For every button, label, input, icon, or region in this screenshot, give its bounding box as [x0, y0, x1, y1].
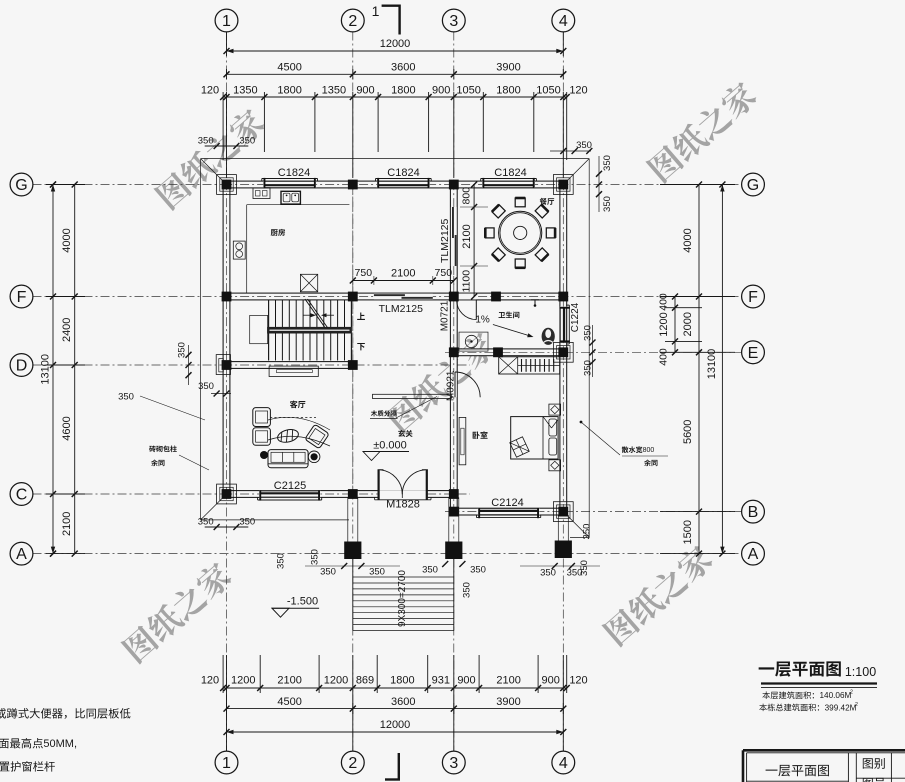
svg-text:B: B — [748, 504, 759, 521]
column C3 — [449, 489, 459, 499]
column G4 — [558, 180, 568, 190]
svg-text:1:100: 1:100 — [845, 665, 876, 679]
bed — [511, 417, 558, 459]
svg-text:800: 800 — [643, 447, 655, 454]
svg-text:120: 120 — [569, 84, 587, 96]
porch edge lines axis3 — [448, 497, 450, 541]
axis line A horizontal — [33, 553, 743, 555]
svg-text:13100: 13100 — [39, 354, 51, 385]
svg-text:3: 3 — [449, 13, 458, 30]
svg-text:3900: 3900 — [496, 61, 520, 73]
label 砖砌包柱 余同 — [149, 446, 156, 453]
svg-text:4: 4 — [559, 755, 568, 772]
svg-text:1350: 1350 — [233, 84, 257, 96]
svg-text:3600: 3600 — [391, 61, 415, 73]
axis bubble 3 — [442, 751, 465, 774]
column F mid — [491, 292, 501, 302]
svg-text:350: 350 — [579, 560, 590, 576]
watermark 图纸之家 2 — [645, 79, 760, 185]
svg-text:F: F — [748, 289, 758, 306]
dining chairs — [546, 228, 555, 238]
column D2 — [348, 360, 358, 370]
dim 350 pair top-left corner — [205, 145, 249, 147]
label 卫生间 — [499, 312, 506, 318]
axis bubble G — [10, 173, 33, 196]
axis bubble G — [742, 173, 765, 196]
svg-text:1: 1 — [222, 13, 231, 30]
dim chain 800 2100 1100 dining west — [473, 185, 475, 297]
axis bubble 1 — [215, 751, 238, 774]
column G3 — [449, 180, 459, 190]
svg-text:C: C — [16, 487, 28, 504]
svg-text:350: 350 — [118, 391, 134, 402]
svg-text:F: F — [17, 289, 27, 306]
label 卧室 — [473, 431, 480, 438]
svg-text:350: 350 — [275, 553, 286, 569]
sliding door TLM2125 hall north — [374, 294, 433, 300]
porch edge lines axis4 — [557, 515, 559, 541]
svg-text:1200: 1200 — [658, 312, 670, 336]
svg-text:4000: 4000 — [61, 228, 73, 252]
washbasin — [459, 332, 488, 351]
watermark 图纸之家 1 — [153, 106, 268, 212]
axis centerlines over walls — [226, 181, 228, 497]
bottom dimension chain total 12000 — [227, 731, 564, 733]
apron outline left — [200, 159, 202, 520]
column E mid — [493, 347, 503, 357]
svg-text:350: 350 — [309, 549, 320, 565]
svg-text:800: 800 — [461, 187, 473, 205]
column G2 — [348, 180, 358, 190]
column F1 — [222, 292, 232, 302]
staircase — [268, 300, 270, 327]
apron corner diagonal bottom-left — [201, 497, 224, 520]
axis bubble 3 — [442, 9, 465, 32]
title block frame — [743, 749, 905, 752]
svg-text:2100: 2100 — [461, 224, 473, 248]
svg-text:M0721: M0721 — [440, 300, 451, 331]
wall C south-west — [223, 491, 457, 498]
bottom fine dimension chain — [223, 687, 567, 689]
axis line C horizontal — [33, 493, 471, 495]
area text line2 — [759, 704, 767, 712]
axis bubble B — [742, 500, 765, 523]
title block text 一层平面图 — [766, 770, 778, 771]
svg-text:50MM,: 50MM, — [43, 738, 77, 750]
apron corner diagonal top-right — [567, 159, 590, 182]
svg-text:350: 350 — [576, 140, 592, 151]
note line 3 — [0, 762, 9, 772]
column C1 — [222, 489, 232, 499]
dim chain 750 2100 750 hall north — [353, 280, 454, 282]
sliding door TLM2125 dining west — [451, 207, 457, 266]
window C1824 a — [263, 181, 316, 188]
svg-text:900: 900 — [432, 84, 450, 96]
title block dividers — [847, 753, 849, 782]
title underline — [761, 682, 877, 684]
sofa side table round — [308, 451, 320, 463]
door M0921 bedroom — [451, 372, 457, 397]
porch pillar axis4 — [555, 541, 572, 559]
kitchen flue — [300, 274, 317, 292]
svg-text:3: 3 — [449, 755, 458, 772]
svg-text:1500: 1500 — [682, 520, 694, 544]
svg-text:120: 120 — [201, 674, 219, 686]
kitchen sink — [281, 191, 300, 204]
svg-text:M1828: M1828 — [386, 498, 420, 510]
window C2125 — [259, 491, 320, 498]
wardrobe — [499, 357, 560, 374]
door M0721 bathroom — [457, 294, 476, 300]
svg-text:1200: 1200 — [231, 674, 255, 686]
svg-text:D: D — [16, 358, 28, 375]
svg-text:1050: 1050 — [536, 84, 560, 96]
column B3 — [449, 507, 459, 517]
svg-text:399.42M: 399.42M — [825, 703, 857, 712]
apron outline bottom-left — [201, 519, 349, 521]
svg-text:1: 1 — [372, 3, 380, 19]
section mark 1 bottom — [398, 753, 400, 780]
svg-text:400: 400 — [658, 293, 670, 311]
sofa armchair 1 — [253, 408, 271, 427]
svg-text:350: 350 — [239, 516, 255, 527]
svg-text:13100: 13100 — [706, 349, 718, 380]
svg-text:1050: 1050 — [456, 84, 480, 96]
column F2 — [348, 292, 358, 302]
svg-text:5600: 5600 — [682, 420, 694, 444]
axis line D horizontal — [33, 364, 471, 366]
axis bubble 2 — [341, 9, 364, 32]
dining table — [499, 211, 542, 254]
svg-text:M0921: M0921 — [445, 370, 456, 401]
top fine dimension chain — [223, 96, 567, 98]
wooden partition 木质分隔 — [373, 394, 452, 398]
staircase break line — [305, 299, 325, 328]
svg-text:900: 900 — [457, 674, 475, 686]
svg-text:E: E — [748, 345, 759, 362]
wall F kitchen — [223, 293, 356, 300]
svg-text:350: 350 — [369, 566, 385, 577]
bottom dimension chain 4500 3600 3900 — [227, 708, 564, 710]
wall west axis1 — [223, 181, 230, 497]
sofa three-seat — [268, 450, 308, 468]
axis line 2 vertical — [352, 32, 354, 752]
axis bubble A — [10, 542, 33, 565]
brick wrap E4 — [553, 342, 573, 362]
svg-text:350: 350 — [602, 196, 613, 212]
label 散水宽800 余同 — [622, 446, 629, 453]
svg-text:3900: 3900 — [496, 696, 520, 708]
label 玄关 — [398, 430, 405, 437]
top dimension chain 4500 3600 3900 — [227, 73, 564, 75]
brick wrap G1 — [217, 175, 237, 195]
dim 350 pair bottom-left corner — [205, 526, 249, 528]
label 厨房 — [271, 229, 278, 236]
svg-text:2: 2 — [855, 702, 858, 708]
apron outline right — [588, 159, 590, 538]
svg-text:TLM2125: TLM2125 — [439, 218, 451, 263]
bedroom west cabinet — [459, 417, 466, 464]
window C1224 — [560, 307, 567, 343]
kitchen counter boundary — [247, 204, 350, 206]
brick wrap C1 — [217, 484, 237, 504]
svg-text:2100: 2100 — [277, 674, 301, 686]
watermark 图纸之家 3 — [384, 329, 499, 435]
axis line 3 vertical — [453, 32, 455, 752]
svg-text:350: 350 — [320, 566, 336, 577]
axis bubble C — [10, 483, 33, 506]
svg-text:9X300=2700: 9X300=2700 — [397, 570, 408, 627]
svg-text:C1224: C1224 — [570, 302, 581, 332]
staircase handrail — [267, 327, 351, 334]
staircase up label — [357, 312, 365, 319]
svg-text:350: 350 — [176, 342, 187, 358]
svg-text:350: 350 — [239, 135, 255, 146]
svg-text:869: 869 — [356, 674, 374, 686]
svg-text:1800: 1800 — [390, 674, 414, 686]
wall axis3 dining — [450, 181, 457, 300]
svg-text:4500: 4500 — [277, 696, 301, 708]
brick wrap B4 — [553, 502, 573, 522]
brick wrap D1 — [216, 355, 230, 375]
svg-text:1: 1 — [222, 755, 231, 772]
column B4 — [558, 507, 568, 517]
axis line 1 vertical — [226, 32, 228, 752]
svg-text:3600: 3600 — [391, 696, 415, 708]
svg-text:750: 750 — [435, 267, 453, 279]
apron outline bottom-right — [570, 537, 589, 539]
svg-text:C1824: C1824 — [494, 167, 526, 179]
title block text 图别 — [863, 758, 873, 769]
porch pillar axis2 — [344, 542, 361, 560]
axis bubble 1 — [215, 9, 238, 32]
window C2124 — [478, 508, 539, 515]
svg-text:350: 350 — [198, 381, 214, 392]
porch edge lines axis2 — [347, 497, 349, 541]
svg-text:2100: 2100 — [61, 512, 73, 536]
svg-text:1800: 1800 — [391, 84, 415, 96]
svg-text:12000: 12000 — [380, 38, 411, 50]
axis bubble A — [742, 542, 765, 565]
title 一层平面图 1:100 — [759, 667, 775, 669]
wall F hall — [349, 293, 457, 300]
section mark 1 top — [382, 4, 400, 6]
door M1828 main entrance — [378, 490, 428, 500]
staircase landing box — [250, 315, 268, 343]
wall B south bedroom — [450, 508, 566, 515]
svg-text:1%: 1% — [475, 315, 490, 326]
svg-text:750: 750 — [355, 267, 373, 279]
kitchen stove — [233, 241, 245, 259]
svg-text:120: 120 — [569, 674, 587, 686]
svg-text:4500: 4500 — [277, 61, 301, 73]
svg-text:A: A — [16, 546, 27, 563]
svg-text:1350: 1350 — [322, 84, 346, 96]
svg-text:140.06M: 140.06M — [820, 691, 852, 700]
rug dashed line — [270, 417, 316, 419]
svg-text:4: 4 — [559, 13, 568, 30]
column F4 — [558, 292, 568, 302]
wall north G — [223, 181, 567, 188]
apron outline top — [201, 158, 590, 160]
entry steps 9X300=2700 — [352, 559, 354, 631]
column E3 — [449, 347, 459, 357]
column G1 — [222, 180, 232, 190]
svg-text:2000: 2000 — [682, 312, 694, 336]
svg-text:900: 900 — [356, 84, 374, 96]
porch pillar axis3 — [445, 542, 462, 560]
window C1824 c — [482, 181, 535, 188]
axis bubble F — [10, 285, 33, 308]
svg-text:1200: 1200 — [324, 674, 348, 686]
svg-text:900: 900 — [542, 674, 560, 686]
svg-text:350: 350 — [470, 564, 486, 575]
svg-text:120: 120 — [201, 84, 219, 96]
svg-text:4000: 4000 — [682, 228, 694, 252]
axis bubble F — [742, 285, 765, 308]
right window chain 400 1200 400 — [674, 297, 676, 353]
staircase down label — [357, 343, 365, 350]
top extension lines — [226, 92, 228, 178]
axis line F horizontal — [33, 296, 743, 298]
watermark 图纸之家 5 — [601, 542, 716, 648]
axis line G horizontal — [33, 184, 743, 186]
svg-text:350: 350 — [198, 516, 214, 527]
svg-text:C1824: C1824 — [387, 167, 419, 179]
kitchen wall box — [253, 188, 270, 199]
axis bubble 2 — [341, 751, 364, 774]
wall east axis4 — [560, 181, 567, 515]
svg-text:1800: 1800 — [496, 84, 520, 96]
title block text row2 partial — [863, 778, 873, 782]
svg-text:G: G — [747, 177, 759, 194]
shoe cabinet — [269, 366, 318, 376]
svg-text:±0.000: ±0.000 — [373, 439, 407, 451]
nightstand top — [549, 404, 561, 415]
left total chain 13100 — [52, 185, 54, 554]
sofa armchair 2 — [253, 428, 271, 446]
slope arrow — [493, 325, 532, 337]
sofa corner blob — [260, 451, 268, 459]
svg-text:350: 350 — [602, 155, 613, 171]
axis bubble E — [742, 341, 765, 364]
svg-text:2: 2 — [348, 13, 357, 30]
floor drain — [531, 299, 539, 301]
brick wrap G4 — [553, 175, 573, 195]
svg-text:2100: 2100 — [391, 267, 415, 279]
svg-text:350: 350 — [198, 135, 214, 146]
left fine chain 4000 2400 4600 2100 — [74, 185, 76, 554]
area text line1 — [762, 691, 770, 699]
staircase arrows — [303, 314, 313, 316]
svg-text:TLM2125: TLM2125 — [379, 303, 424, 315]
svg-text:350: 350 — [582, 325, 593, 341]
sofa rotated armchair — [305, 424, 329, 449]
note line 1 — [0, 708, 6, 718]
wall F bath — [450, 293, 566, 300]
apron corner diagonal bottom-right — [567, 515, 590, 538]
nightstand bottom — [549, 460, 561, 471]
svg-text:-1.500: -1.500 — [287, 595, 318, 607]
wall D stair — [223, 362, 356, 369]
axis line E horizontal — [445, 351, 742, 353]
axis bubble 4 — [552, 751, 575, 774]
svg-text:400: 400 — [658, 348, 670, 366]
svg-text:2100: 2100 — [496, 674, 520, 686]
svg-text:G: G — [15, 177, 27, 194]
axis bubble 4 — [552, 9, 575, 32]
coffee table — [276, 428, 299, 445]
top dimension chain total 12000 — [227, 50, 564, 52]
axis bubble D — [10, 354, 33, 377]
svg-text:12000: 12000 — [380, 719, 411, 731]
toilet — [542, 328, 555, 345]
title block cell bottom line — [747, 780, 849, 782]
label 客厅 — [290, 401, 298, 409]
svg-text:2: 2 — [348, 755, 357, 772]
svg-text:1100: 1100 — [461, 270, 473, 293]
right fine chain 4000 2000 5600 1500 — [698, 185, 700, 554]
apron corner diagonal top-left — [201, 159, 224, 182]
svg-text:1800: 1800 — [277, 84, 301, 96]
svg-text:A: A — [748, 546, 759, 563]
label 餐厅 — [540, 198, 547, 205]
axis line 4 vertical — [562, 32, 564, 752]
column F3 — [449, 292, 459, 302]
watermark 图纸之家 4 — [120, 559, 235, 665]
svg-text:2: 2 — [850, 690, 853, 696]
window C1824 b — [377, 181, 430, 188]
svg-text:C1824: C1824 — [278, 167, 310, 179]
bed quilt pattern — [510, 437, 529, 457]
note line 2 — [0, 739, 9, 749]
right total chain 13100 — [721, 185, 723, 554]
axis line B horizontal — [445, 511, 742, 513]
svg-text:350: 350 — [540, 567, 556, 578]
svg-text:350: 350 — [461, 582, 472, 598]
svg-text:350: 350 — [422, 564, 438, 575]
svg-text:C2125: C2125 — [274, 480, 306, 492]
svg-text:2400: 2400 — [61, 318, 73, 342]
svg-text:4600: 4600 — [61, 416, 73, 440]
svg-text:C2124: C2124 — [491, 497, 523, 509]
svg-text:350: 350 — [581, 524, 592, 540]
column E4 — [558, 347, 568, 357]
wall axis3 bed-bath — [450, 293, 457, 515]
svg-text:931: 931 — [432, 674, 450, 686]
column D1 — [222, 360, 232, 370]
column C2 — [348, 489, 358, 499]
wall E — [450, 349, 566, 356]
